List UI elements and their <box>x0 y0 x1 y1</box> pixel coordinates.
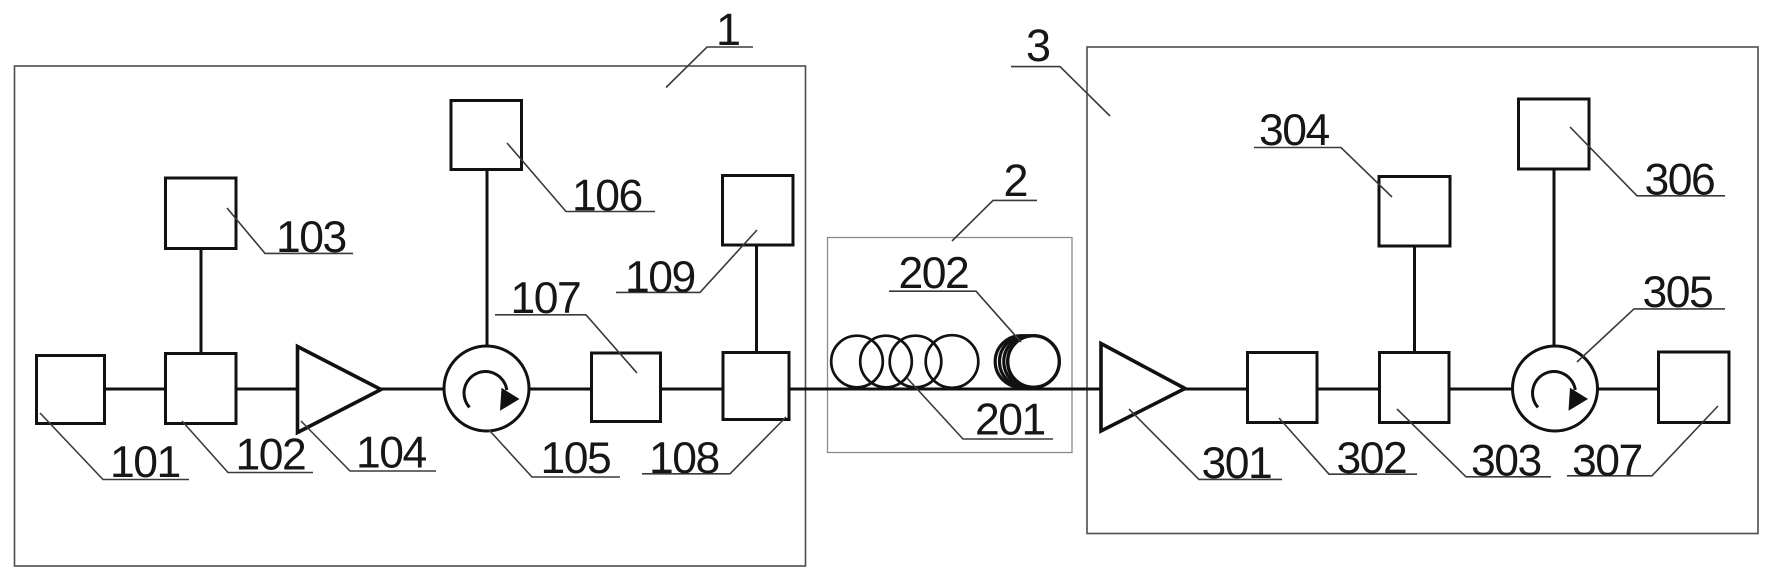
label 103 leader <box>227 208 353 253</box>
svg-text:108: 108 <box>649 434 719 483</box>
label 304 leader <box>1254 148 1392 198</box>
label 102 leader <box>182 421 313 473</box>
component 102 box <box>166 354 237 424</box>
label 109 leader <box>616 230 757 292</box>
svg-text:109: 109 <box>625 253 695 302</box>
amplifier 104 triangle <box>298 347 382 433</box>
label 301 leader <box>1129 409 1282 479</box>
label 302 leader <box>1279 418 1417 474</box>
fiber spool stacked rings <box>995 336 1055 388</box>
wire 102-104 <box>236 388 298 391</box>
wire 304-303 vertical <box>1413 246 1416 353</box>
fiber coil loop ring 4 <box>926 335 979 388</box>
svg-text:305: 305 <box>1643 268 1713 317</box>
component 109 box <box>723 176 794 246</box>
svg-text:105: 105 <box>541 434 611 483</box>
label 305 leader <box>1577 309 1725 362</box>
wire 104-105 <box>381 388 444 391</box>
component 302 box <box>1248 353 1318 423</box>
label 1 leader <box>666 47 753 88</box>
svg-text:3: 3 <box>1026 20 1050 71</box>
circulator 305 arrowhead <box>1569 388 1589 411</box>
wire 108-301 through sensing fiber <box>789 388 1101 391</box>
svg-text:202: 202 <box>899 249 969 298</box>
svg-text:302: 302 <box>1337 434 1407 483</box>
wire 301-302 <box>1185 388 1248 391</box>
component 107 box <box>592 353 661 422</box>
svg-text:101: 101 <box>110 438 180 487</box>
svg-text:306: 306 <box>1645 156 1715 205</box>
svg-text:303: 303 <box>1471 437 1541 486</box>
fiber coil loop ring 3 <box>890 336 942 388</box>
circulator 305 inner arrow arc <box>1533 372 1576 408</box>
wire 305-307 <box>1597 388 1659 391</box>
label 3 leader <box>1011 67 1110 116</box>
wire 109-108 vertical <box>755 245 758 353</box>
amplifier 301 triangle <box>1101 344 1185 432</box>
component 307 box <box>1659 352 1730 423</box>
circulator 305 circle <box>1513 346 1598 431</box>
label 106 leader <box>507 143 655 212</box>
fiber coil loop ring 1 <box>831 336 883 388</box>
wire 106-105 vertical <box>486 170 489 348</box>
svg-text:301: 301 <box>1202 439 1272 488</box>
circulator 105 arrowhead <box>500 388 520 411</box>
fiber spool front ring <box>1008 336 1060 388</box>
circulator 105 circle <box>444 346 529 431</box>
label 202 leader <box>889 291 1021 342</box>
wire 306-305 vertical <box>1553 169 1556 347</box>
svg-text:102: 102 <box>236 431 306 480</box>
component 306 box <box>1519 99 1590 169</box>
subsystem box 2 (sensing fiber frame) <box>828 238 1073 453</box>
wire 302-303 <box>1317 388 1380 391</box>
wire 101-102 <box>105 388 166 391</box>
svg-text:103: 103 <box>276 213 346 262</box>
circulator 105 inner arrow arc <box>464 372 507 408</box>
fiber coil loop ring 2 <box>860 336 912 388</box>
component 108 box <box>723 353 789 420</box>
component 106 box <box>451 101 522 170</box>
label 108 leader <box>642 417 786 474</box>
wire 107-108 <box>661 388 724 391</box>
component 101 box <box>37 356 105 424</box>
wire 303-305 <box>1449 388 1513 391</box>
label 303 leader <box>1397 409 1551 477</box>
subsystem box 1 (transmitter unit frame) <box>15 66 806 566</box>
component 304 box <box>1379 177 1450 247</box>
component 103 box <box>166 178 237 249</box>
svg-text:307: 307 <box>1572 437 1642 486</box>
label 104 leader <box>301 421 436 471</box>
wire 105-107 <box>529 388 592 391</box>
svg-text:304: 304 <box>1259 106 1329 155</box>
label 306 leader <box>1570 127 1725 196</box>
svg-text:1: 1 <box>716 4 740 55</box>
subsystem box 3 (receiver unit frame) <box>1087 47 1758 534</box>
label 307 leader <box>1567 406 1718 476</box>
component 303 box <box>1380 353 1450 423</box>
label 101 leader <box>40 413 189 480</box>
svg-text:2: 2 <box>1004 155 1028 206</box>
label 2 leader <box>952 200 1037 241</box>
label 201 leader <box>907 378 1053 439</box>
svg-text:106: 106 <box>572 172 642 221</box>
wire 103-102 vertical <box>200 249 203 354</box>
label 105 leader <box>489 430 620 477</box>
svg-text:107: 107 <box>511 274 581 323</box>
label 107 leader <box>495 315 637 373</box>
svg-text:201: 201 <box>975 396 1045 445</box>
svg-text:104: 104 <box>356 429 426 478</box>
